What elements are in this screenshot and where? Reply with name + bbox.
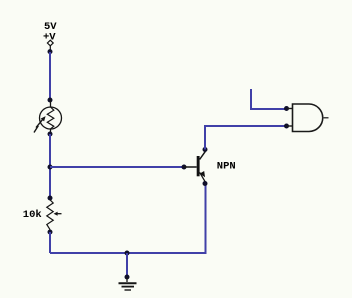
junction dot ground [125, 275, 130, 280]
junction dot photoresistor bottom [48, 132, 53, 137]
wire to ground symbol [126, 253, 128, 276]
wire power to photoresistor [49, 52, 51, 100]
junction dot collector [203, 147, 208, 152]
node junction base branch [48, 165, 53, 170]
transistor Q1 NPN [184, 151, 205, 182]
wire potentiometer to ground rail [49, 232, 51, 253]
wire collector to gate input B [205, 126, 287, 150]
junction dot gate input B [284, 124, 289, 129]
svg-text:NPN: NPN [217, 160, 236, 172]
wire junction to transistor base [50, 166, 184, 168]
junction dot power [48, 49, 53, 54]
junction dot photoresistor top [48, 98, 53, 103]
ground [119, 277, 137, 290]
junction dot gate input A [284, 106, 289, 111]
svg-text:+V: +V [43, 32, 56, 44]
junction dot transistor base [182, 165, 187, 170]
photoresistor R1 [34, 99, 62, 135]
junction dot emitter [203, 181, 208, 186]
wire photoresistor to potentiometer [49, 134, 51, 198]
node junction ground [125, 251, 130, 256]
potentiometer R2 10k [47, 200, 62, 230]
and-gate U1 [287, 104, 329, 132]
svg-text:10k: 10k [23, 209, 42, 221]
wire gate input A stub [251, 89, 287, 109]
junction dot potentiometer top [48, 196, 53, 201]
power symbol +V diamond [47, 40, 53, 50]
wire ground rail [50, 184, 206, 254]
junction dot potentiometer bottom [48, 230, 53, 235]
